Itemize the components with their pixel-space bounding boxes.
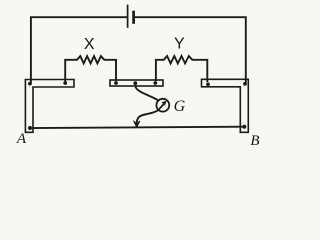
svg-text:G: G — [174, 98, 186, 115]
svg-text:Y: Y — [174, 36, 185, 53]
svg-text:X: X — [84, 36, 95, 53]
svg-text:A: A — [16, 131, 27, 147]
svg-text:B: B — [250, 133, 259, 149]
